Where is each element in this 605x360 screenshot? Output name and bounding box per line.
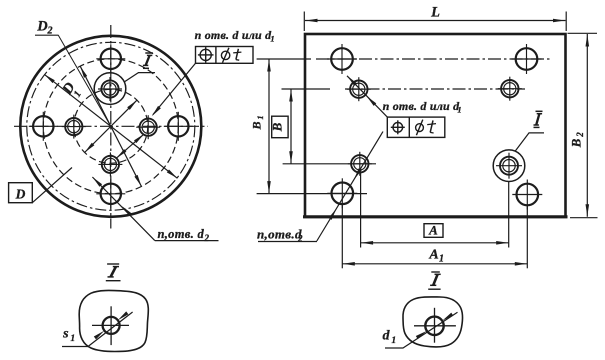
plate hole d upper-left outer [350, 81, 367, 98]
position symbol hline right [391, 126, 405, 128]
d1 arrow upper-right [442, 313, 453, 321]
plate hole d2 bottom-left [332, 183, 354, 205]
svg-text:B: B [250, 121, 264, 130]
detail I right blob outline [403, 297, 463, 347]
plate hole d2 top-left crosshair [327, 58, 357, 60]
spot-face boss circle around top d hole [94, 73, 126, 105]
svg-text:1: 1 [270, 34, 274, 44]
plate hole d2 top-right [516, 48, 538, 70]
label I right view [536, 114, 539, 125]
D label box [9, 183, 33, 203]
hole d2 left [33, 116, 53, 136]
detail left crosshair v [110, 306, 112, 345]
svg-text:A: A [428, 248, 438, 263]
t hook right [430, 131, 433, 134]
frame leader arrow at hole edge [367, 96, 377, 106]
detail right crosshair h [414, 325, 456, 327]
plate hole d2 bottom-left crosshair [327, 192, 357, 194]
hole d bottom inner [104, 158, 116, 170]
A1 ext right [526, 206, 528, 269]
B arrow top [289, 90, 293, 102]
I label underline left view [143, 67, 149, 69]
diameter line 45deg for inner bolt circle [85, 100, 137, 152]
detail left crosshair h [92, 324, 129, 326]
frame leader arrow far end [347, 76, 357, 86]
svg-text:B: B [569, 138, 584, 148]
svg-text:n отв. d или d: n отв. d или d [383, 99, 460, 113]
I label leader [125, 73, 139, 82]
svg-text:1: 1 [70, 334, 75, 344]
position symbol circle right [393, 123, 403, 133]
hole d left crosshair [62, 126, 86, 128]
L ext line left [303, 12, 305, 32]
phi symbol stem left [223, 48, 229, 63]
plate hole d lower-left inner [354, 158, 366, 170]
B dimension line [290, 89, 292, 164]
hole d2 right [168, 116, 188, 136]
d1 arrow lower-left [416, 331, 427, 339]
plate hole d upper-left crosshair [347, 88, 371, 90]
D2 label shelf [35, 34, 58, 36]
phi symbol stem right [416, 120, 422, 136]
t stem left [236, 49, 239, 60]
detail right crosshair v [434, 308, 436, 343]
hole d bottom crosshair [98, 163, 122, 165]
plate boss circle detail I [493, 150, 525, 182]
B2 arrow top [586, 35, 590, 47]
svg-text:s: s [62, 327, 69, 342]
plate hole d upper-right inner [504, 83, 516, 95]
t stem right [430, 120, 433, 132]
svg-text:B: B [270, 122, 285, 132]
frame leader arrow left [152, 106, 161, 116]
arrow D1 lower [134, 175, 141, 187]
s1 arrow upper-right [118, 311, 129, 320]
B2 ext top [568, 32, 598, 34]
plate I hole outer [500, 157, 518, 175]
plate hole d2 top-left [331, 48, 353, 70]
A dimension line [361, 242, 509, 244]
svg-text:1: 1 [439, 254, 444, 265]
phi symbol circle left [221, 51, 229, 59]
svg-text:n,отв.d: n,отв.d [257, 227, 302, 242]
flange outer circle [20, 36, 201, 217]
svg-text:D: D [36, 19, 48, 35]
L dimension line [305, 20, 566, 22]
B2 arrow bottom [586, 204, 590, 216]
B2 dimension line [586, 34, 588, 217]
plate hole d lower-left outer [351, 155, 368, 172]
row centerline y59 [316, 58, 552, 60]
B arrow bottom [289, 151, 293, 163]
detail I right underline [428, 288, 440, 290]
B1 arrow bottom [267, 181, 271, 193]
hole d left inner [68, 121, 80, 133]
hole d right outer [140, 119, 157, 136]
bolt circle of d2 holes dashed [43, 59, 178, 194]
B ext top [282, 88, 331, 90]
arrow D2 upper [44, 74, 55, 83]
t crossbar left [233, 51, 241, 54]
B ext bottom / hole centerline [283, 163, 376, 165]
detail I left underline [106, 280, 121, 282]
detail I left overline [107, 263, 119, 265]
detail I left blob outline [79, 290, 148, 351]
frame divider right [408, 117, 410, 137]
position symbol circle left [200, 49, 211, 60]
D label leader [32, 168, 72, 203]
I leader right view [515, 133, 544, 151]
arrow 225deg down-left [85, 143, 95, 153]
hole d top inner [104, 83, 116, 95]
A ext left [360, 173, 362, 248]
B label box [272, 116, 288, 138]
A1 arrow left [343, 262, 355, 266]
svg-text:n отв. d или d: n отв. d или d [195, 28, 272, 42]
chord line between d holes [116, 134, 144, 158]
B2 ext bottom [570, 217, 598, 219]
A label box [424, 224, 443, 238]
detail right hole circle d1 [425, 317, 443, 335]
hole d2 bottom crosshair [96, 193, 125, 195]
L ext line right [565, 12, 567, 32]
arrow at hole lower-left right view [329, 209, 337, 220]
detail I left title [111, 267, 116, 277]
A arrow left [361, 241, 373, 245]
frame leader right up [347, 76, 387, 117]
plate hole d2 top-right crosshair [512, 58, 542, 60]
svg-text:L: L [430, 5, 440, 21]
svg-text:d: d [383, 329, 391, 344]
arrow 45deg up-right [127, 100, 137, 110]
plate I hole crosshair [496, 165, 522, 167]
leader n otv d2 left [92, 177, 154, 241]
hole d2 left crosshair [29, 125, 58, 127]
detail I right title [433, 274, 437, 285]
hole d bottom outer [102, 156, 119, 173]
plate hole d lower-left crosshair [348, 163, 372, 165]
hole d top crosshair [98, 88, 122, 90]
position symbol vline right [397, 120, 399, 134]
svg-text:A: A [428, 223, 438, 238]
hole d top outer [101, 80, 118, 97]
svg-text:1: 1 [255, 115, 265, 119]
B1 ext top [257, 58, 311, 60]
A1 arrow right [515, 262, 527, 266]
plate hole d upper-left inner [353, 83, 365, 95]
L arrow right [553, 19, 565, 23]
diameter line D1 [80, 66, 141, 186]
t hook left [236, 59, 239, 62]
row line y193 inside plate [305, 193, 367, 195]
svg-text:1: 1 [391, 336, 396, 346]
plate bottom edge thick [303, 215, 568, 218]
shelf under n otv d2 right [258, 241, 317, 243]
tolerance frame left [196, 47, 254, 64]
plate outline [305, 34, 566, 217]
flange horizontal centerline [14, 125, 208, 127]
A ext right [508, 182, 510, 248]
t crossbar right [427, 124, 436, 125]
hole d2 top [101, 49, 121, 69]
shelf under n otv d2 left [155, 240, 219, 242]
L arrow left [306, 19, 318, 23]
detail I right overline [431, 271, 440, 273]
D2 leader ray [58, 35, 111, 126]
label I left view [146, 55, 150, 65]
plate hole d2 bottom-right crosshair [512, 194, 542, 196]
svg-text:2: 2 [47, 26, 53, 37]
s1 arrow lower-left [94, 331, 105, 340]
I label underline right view [534, 126, 540, 128]
diameter line D2 [44, 74, 177, 178]
s1 leader [62, 312, 133, 347]
I label overline right view [536, 110, 543, 112]
hole d2 bottom [101, 184, 121, 204]
flange vertical centerline [110, 25, 112, 229]
chord arrow upper [134, 134, 144, 143]
d1 leader [385, 312, 458, 348]
hole d2 top crosshair [96, 58, 125, 60]
arrow at hole upper-right right view [354, 168, 362, 179]
arrow n otv d2 left far end [92, 177, 102, 187]
arrow D2 lower [167, 170, 178, 179]
plate hole d upper-right crosshair [498, 88, 522, 90]
I label overline left view [145, 52, 153, 54]
position symbol hline left [198, 54, 214, 56]
arrow D1 upper [80, 66, 87, 78]
svg-text:1: 1 [457, 105, 461, 115]
position symbol vline left [205, 47, 207, 63]
A1 ext left [341, 204, 343, 268]
hole d left outer [65, 118, 82, 135]
I label shelf left view [138, 72, 155, 74]
tolerance frame right [387, 117, 445, 137]
bolt circle D2 dash-dot [27, 42, 195, 210]
arrow n otv d2 left at hole edge [122, 206, 132, 216]
hole d2 right crosshair [164, 125, 193, 127]
svg-text:D: D [15, 187, 26, 202]
row centerline y89 [345, 88, 525, 90]
A1 dimension line [342, 263, 527, 265]
leader n otv d2 right long [317, 132, 383, 242]
B1 dimension line [268, 59, 270, 194]
B1 ext bottom [257, 193, 305, 195]
plate hole d2 bottom-right [517, 184, 539, 206]
chord arrow lower [116, 149, 126, 158]
B1 arrow top [267, 60, 271, 72]
bolt circle of d holes dashed [74, 89, 148, 163]
hole d right crosshair [136, 126, 160, 128]
A arrow right [496, 241, 508, 245]
svg-text:n,отв. d: n,отв. d [158, 227, 205, 241]
frame divider left [215, 47, 217, 64]
phi symbol circle right [416, 124, 424, 132]
plate hole d upper-right outer [501, 80, 518, 97]
plate I hole inner [503, 160, 515, 172]
svg-text:2: 2 [204, 233, 210, 243]
svg-text:2: 2 [575, 132, 585, 138]
hole d right inner [142, 121, 154, 133]
frame leader left [153, 63, 196, 115]
detail left hole circle [103, 317, 120, 334]
